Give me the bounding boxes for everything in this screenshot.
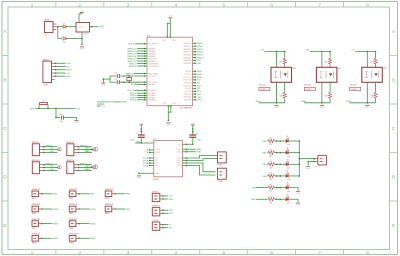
svg-text:1-2EN: 1-2EN <box>155 150 161 152</box>
svg-text:MT1B: MT1B <box>143 160 149 162</box>
svg-text:1: 1 <box>31 250 34 256</box>
svg-text:RB6/KBI2: RB6/KBI2 <box>184 60 192 62</box>
svg-text:SERVO-3: SERVO-3 <box>127 53 137 55</box>
wire <box>329 65 331 68</box>
wire to bus <box>289 152 299 154</box>
svg-text:PIC18F8722: PIC18F8722 <box>180 108 193 110</box>
resistor R5 <box>268 174 276 177</box>
svg-text:CON2: CON2 <box>305 89 310 91</box>
svg-text:SDO: SDO <box>197 85 202 87</box>
resistor R12 <box>329 58 332 65</box>
svg-text:OSC2/CLK: OSC2/CLK <box>148 82 157 84</box>
IC5 right pins with net labels <box>193 43 196 100</box>
svg-text:C: C <box>392 126 396 132</box>
junction <box>57 26 59 28</box>
svg-text:4: 4 <box>174 250 177 256</box>
wire <box>284 99 286 103</box>
svg-text:B: B <box>3 77 6 83</box>
ground GND2 <box>166 123 171 127</box>
wire to +5V label <box>56 107 76 109</box>
svg-text:SERVO2: SERVO2 <box>80 145 87 147</box>
wire <box>275 152 286 154</box>
svg-text:IN1: IN1 <box>155 158 158 160</box>
ground under OK3 <box>365 105 370 109</box>
svg-text:PGD: PGD <box>197 63 202 65</box>
connector SERVO3 <box>32 162 39 174</box>
svg-text:MCLR: MCLR <box>128 44 134 46</box>
svg-text:D6: D6 <box>286 183 288 185</box>
svg-text:RC7/RX: RC7/RX <box>185 91 192 93</box>
svg-text:GND: GND <box>74 122 79 124</box>
svg-text:C4: C4 <box>196 133 198 135</box>
svg-text:220: 220 <box>269 156 272 158</box>
svg-text:LED3: LED3 <box>197 100 203 102</box>
svg-text:IN2: IN2 <box>155 160 158 162</box>
LED D6 <box>286 185 289 190</box>
svg-text:IN3: IN3 <box>155 163 158 165</box>
connector SERVO2 <box>67 144 74 156</box>
svg-text:SW7: SW7 <box>32 228 36 230</box>
svg-text:SNS1: SNS1 <box>196 149 201 151</box>
svg-text:3-4EN: 3-4EN <box>155 152 161 154</box>
wire IC4 to PTM1 <box>187 156 215 159</box>
ground GND1 <box>80 47 85 51</box>
svg-text:IC1: IC1 <box>85 34 88 36</box>
svg-text:RB4/KBI0: RB4/KBI0 <box>184 54 192 56</box>
svg-text:220: 220 <box>269 167 272 169</box>
svg-text:SW10: SW10 <box>69 243 74 245</box>
LED D3 <box>286 150 289 155</box>
wire emitter down <box>276 82 278 103</box>
junction <box>123 75 125 77</box>
svg-text:SERVO2: SERVO2 <box>152 206 160 208</box>
svg-text:MSW-1: MSW-1 <box>197 43 205 45</box>
connector TX-RX <box>152 222 160 230</box>
svg-text:Q1: Q1 <box>126 75 128 77</box>
+5V supply P4 <box>191 123 195 125</box>
svg-text:7: 7 <box>318 250 321 256</box>
LED D7 <box>286 196 289 201</box>
svg-text:OSC1/CLK: OSC1/CLK <box>148 76 157 78</box>
svg-text:RC0/T1: RC0/T1 <box>185 71 191 73</box>
svg-text:RB1/INT1: RB1/INT1 <box>184 46 192 48</box>
svg-text:GND: GND <box>50 169 55 171</box>
svg-text:VUSB: VUSB <box>131 84 137 86</box>
svg-text:SR2: SR2 <box>169 213 173 215</box>
svg-text:SNS1: SNS1 <box>197 71 203 73</box>
svg-text:220: 220 <box>269 191 272 193</box>
svg-text:220: 220 <box>269 144 272 146</box>
optocoupler OK2 <box>316 67 337 82</box>
svg-text:D: D <box>3 174 7 180</box>
svg-text:TX-RX: TX-RX <box>152 220 158 222</box>
svg-text:SERVO-6: SERVO-6 <box>127 61 137 63</box>
wire IC1 gnd pin down <box>81 32 83 45</box>
wire to OK input <box>366 52 368 68</box>
wire <box>266 175 269 177</box>
wire output rail <box>259 102 285 104</box>
diode D2 <box>63 37 66 40</box>
svg-text:6: 6 <box>270 250 273 256</box>
svg-text:GND: GND <box>66 76 71 78</box>
svg-text:SW4: SW4 <box>32 213 36 215</box>
capacitor C4 <box>189 135 196 137</box>
svg-text:GND: GND <box>274 107 279 109</box>
svg-text:GND: GND <box>296 193 301 195</box>
svg-text:SERVO-4: SERVO-4 <box>127 56 137 58</box>
svg-text:OUT2: OUT2 <box>177 160 182 162</box>
wire emitter down <box>366 82 368 103</box>
wire <box>266 163 269 165</box>
svg-text:MSW-5: MSW-5 <box>197 55 205 57</box>
wire C11 to ground <box>64 118 77 120</box>
svg-text:SEN4: SEN4 <box>53 238 59 240</box>
svg-text:SCK: SCK <box>197 80 202 82</box>
svg-text:SERVO-2: SERVO-2 <box>127 51 137 53</box>
wire bus to speaker <box>299 158 315 160</box>
wire D2 to gnd rail <box>66 38 82 40</box>
svg-text:CON3: CON3 <box>351 89 356 91</box>
label COM1 <box>259 87 270 90</box>
connector SERVO1 <box>32 144 39 156</box>
svg-text:LED1: LED1 <box>197 94 203 96</box>
svg-text:SEN3: SEN3 <box>53 223 59 225</box>
svg-text:GND: GND <box>365 107 370 109</box>
svg-text:3: 3 <box>126 2 129 8</box>
capacitor C11 <box>62 116 64 120</box>
wire +5V rail <box>264 51 284 53</box>
svg-text:C1: C1 <box>136 133 138 135</box>
svg-text:2: 2 <box>79 250 82 256</box>
wire <box>284 65 286 68</box>
svg-text:MSW-6: MSW-6 <box>197 57 205 59</box>
svg-text:PGD: PGD <box>66 63 71 65</box>
ground under OK2 <box>320 105 325 109</box>
svg-text:R5: R5 <box>270 173 272 175</box>
voltage regulator IC1 7805 <box>76 23 90 33</box>
svg-text:SENS-1: SENS-1 <box>129 63 137 65</box>
svg-text:SEN5: SEN5 <box>90 223 96 225</box>
svg-text:RX-TX: RX-TX <box>128 90 135 92</box>
wire <box>266 140 269 142</box>
svg-text:D2: D2 <box>286 136 288 138</box>
svg-text:SERVO-1: SERVO-1 <box>127 48 137 50</box>
svg-text:SERVO3: SERVO3 <box>46 163 53 165</box>
svg-text:JP5V3: JP5V3 <box>152 191 158 193</box>
svg-text:MT2B: MT2B <box>143 165 149 167</box>
wire to bus <box>289 163 299 165</box>
wire IC4 to PTM2 <box>187 163 215 172</box>
speaker LS1 <box>318 155 327 165</box>
ground GND6 <box>306 166 311 170</box>
svg-text:100n: 100n <box>130 140 134 142</box>
svg-text:OK2: OK2 <box>338 68 342 70</box>
resistor R2 <box>268 139 276 142</box>
svg-text:GND: GND <box>50 151 55 153</box>
motor driver IC4 L293D <box>154 141 183 177</box>
wire <box>275 175 286 177</box>
svg-text:OUT4: OUT4 <box>177 165 182 167</box>
wire output rail <box>350 102 376 104</box>
ground GND3 <box>101 83 106 87</box>
wire <box>275 187 286 189</box>
svg-text:RB2/INT2: RB2/INT2 <box>184 49 192 51</box>
svg-text:C3: C3 <box>115 79 117 81</box>
svg-text:GND: GND <box>80 49 85 51</box>
wire OSC2 <box>119 81 146 83</box>
svg-text:100n: 100n <box>197 140 201 142</box>
svg-text:D3: D3 <box>286 148 288 150</box>
wire down to C11 <box>55 108 57 117</box>
svg-text:OUT2: OUT2 <box>177 151 182 153</box>
wire gnd to caps <box>102 79 104 83</box>
svg-text:D2: D2 <box>63 42 65 44</box>
svg-text:X1: X1 <box>45 34 47 36</box>
svg-text:GND: GND <box>101 85 106 87</box>
wire to ground <box>289 199 298 202</box>
wire jack to D1 <box>56 26 63 28</box>
svg-text:SERVO1: SERVO1 <box>46 145 53 147</box>
svg-text:R4: R4 <box>270 161 272 163</box>
svg-text:RB3/INT3: RB3/INT3 <box>184 52 192 54</box>
LED D5 <box>286 173 289 178</box>
svg-text:GND: GND <box>84 169 89 171</box>
svg-text:SNS1: SNS1 <box>256 101 261 103</box>
svg-text:OUT1: OUT1 <box>177 158 182 160</box>
svg-text:SR1: SR1 <box>169 210 173 212</box>
svg-text:SDI: SDI <box>197 83 201 85</box>
svg-text:IN4: IN4 <box>155 165 158 167</box>
LED D2 <box>286 138 289 143</box>
wire +5V rail <box>355 51 375 53</box>
svg-text:MTR-1: MTR-1 <box>130 93 137 95</box>
svg-text:RC2/CCP: RC2/CCP <box>184 77 193 79</box>
svg-text:SW3: SW3 <box>105 198 109 200</box>
connector X1 DC jack <box>45 22 54 33</box>
wire OSC1 <box>119 75 146 77</box>
capacitor C2 <box>117 74 119 78</box>
connector PTM2 motor <box>218 168 227 179</box>
svg-text:GND: GND <box>84 151 89 153</box>
svg-text:RB0/INT0: RB0/INT0 <box>184 43 192 45</box>
svg-text:MCLR: MCLR <box>66 70 72 72</box>
svg-text:KMK: KMK <box>251 199 256 201</box>
wire to OK input <box>321 52 323 68</box>
svg-text:4: 4 <box>174 2 177 8</box>
wire to R <box>284 52 286 58</box>
resistor R11 <box>283 58 286 65</box>
resistor R3 <box>268 151 276 154</box>
svg-text:D5: D5 <box>286 171 288 173</box>
svg-text:LED2: LED2 <box>197 97 203 99</box>
svg-text:V+: V+ <box>155 143 157 145</box>
svg-text:D1: D1 <box>63 23 65 25</box>
ground under OK1 <box>274 105 279 109</box>
wire +5V to C4 <box>192 125 194 135</box>
wire IC1 output <box>90 26 99 28</box>
svg-text:SEN2: SEN2 <box>90 209 96 211</box>
svg-text:3: 3 <box>126 250 129 256</box>
svg-text:RC6/TX: RC6/TX <box>185 88 192 90</box>
svg-text:PGC: PGC <box>197 60 202 62</box>
svg-text:LS1 8R: LS1 8R <box>314 166 321 168</box>
IC5 left pins with net labels <box>134 44 147 100</box>
svg-text:RC5/SDO: RC5/SDO <box>183 85 191 87</box>
svg-text:L293D: L293D <box>153 179 159 181</box>
wire <box>256 187 268 189</box>
svg-text:+VMOT: +VMOT <box>135 141 143 143</box>
wire IC1 input +V up <box>79 13 82 23</box>
svg-text:MCLR/VPP: MCLR/VPP <box>148 44 158 46</box>
wire <box>275 140 286 142</box>
+5V supply P1 <box>80 10 84 12</box>
svg-text:220: 220 <box>269 202 272 204</box>
wire <box>375 99 377 103</box>
svg-text:7: 7 <box>318 2 321 8</box>
frame column ticks and numbers <box>56 2 344 255</box>
wire to bus <box>289 140 299 142</box>
wire to R <box>375 52 377 58</box>
wire jack branch down <box>58 27 62 39</box>
svg-text:RC4/SDI: RC4/SDI <box>184 82 191 84</box>
junction <box>123 81 125 83</box>
svg-text:8: 8 <box>366 250 369 256</box>
svg-text:SW1: SW1 <box>32 198 36 200</box>
wire collector down <box>329 82 331 92</box>
svg-text:SERVO3: SERVO3 <box>32 160 40 162</box>
wire collector down <box>375 82 377 92</box>
svg-text:OK3: OK3 <box>383 68 387 70</box>
svg-text:L1: L1 <box>42 100 44 102</box>
svg-text:SEN1: SEN1 <box>53 209 59 211</box>
svg-text:MTR-4: MTR-4 <box>130 100 137 102</box>
svg-text:D7: D7 <box>286 194 288 196</box>
junction <box>81 43 83 45</box>
svg-text:5: 5 <box>222 250 225 256</box>
svg-text:RD2/PSP: RD2/PSP <box>184 100 192 102</box>
svg-text:DPC114: DPC114 <box>304 85 311 87</box>
svg-text:MTR-3: MTR-3 <box>130 97 137 99</box>
capacitor C3 <box>117 80 119 84</box>
wire V+ rail into IC4 <box>135 142 154 144</box>
svg-text:+5V: +5V <box>99 26 104 29</box>
svg-text:SW2: SW2 <box>69 198 73 200</box>
svg-text:D4: D4 <box>286 159 288 161</box>
svg-text:R6: R6 <box>270 184 272 186</box>
svg-text:7805: 7805 <box>78 27 82 29</box>
junction <box>81 38 83 40</box>
svg-text:RD0/PSP: RD0/PSP <box>184 94 192 96</box>
svg-text:MSW-3: MSW-3 <box>197 49 205 51</box>
svg-text:C: C <box>3 126 7 132</box>
inductor L1 <box>38 105 40 109</box>
svg-text:RB7/KBI3: RB7/KBI3 <box>184 63 192 65</box>
svg-text:GND: GND <box>296 205 301 207</box>
svg-text:robotiksistem.blogspot.com: robotiksistem.blogspot.com <box>97 100 127 103</box>
ground <box>296 191 301 195</box>
svg-text:R7: R7 <box>270 196 272 198</box>
svg-text:GND: GND <box>169 199 174 201</box>
svg-text:SNS3: SNS3 <box>197 77 203 79</box>
wire D1 to IC1 <box>66 26 76 28</box>
svg-text:B: B <box>392 77 395 83</box>
svg-text:6: 6 <box>270 2 273 8</box>
frame row ticks and letters <box>2 56 398 202</box>
svg-text:SW5: SW5 <box>69 213 73 215</box>
connector SERVO2 <box>152 208 160 216</box>
resistor R22 <box>329 92 332 99</box>
wire speaker pin2 to ground <box>308 161 315 163</box>
main MCU IC5 PIC18F8722 <box>147 37 193 106</box>
label COM3 <box>350 87 361 90</box>
junction <box>128 81 130 83</box>
ground GND4 <box>74 121 79 125</box>
wire to ground <box>289 188 298 191</box>
LED common bus wire <box>298 141 300 176</box>
optocoupler OK1 <box>271 67 292 82</box>
svg-text:SW8: SW8 <box>69 228 73 230</box>
svg-text:220: 220 <box>269 179 272 181</box>
svg-text:+5V: +5V <box>76 108 80 110</box>
svg-text:OUT1: OUT1 <box>177 149 182 151</box>
svg-text:ICSP: ICSP <box>44 85 49 87</box>
wire <box>275 163 286 165</box>
svg-text:SEN6: SEN6 <box>90 238 96 240</box>
svg-text:REV : 1: REV : 1 <box>97 106 106 108</box>
wire C4 down to IC4 VCC <box>192 137 194 144</box>
svg-text:1: 1 <box>31 2 34 8</box>
wire collector down <box>284 82 286 92</box>
wire +5V to C1 <box>140 125 142 135</box>
svg-text:RC3/SCK: RC3/SCK <box>184 80 192 82</box>
wire IC5 VSS to ground <box>168 106 171 113</box>
wire C1 down to IC4 V+ <box>140 137 142 143</box>
label COM2 <box>304 87 315 90</box>
capacitor C1 <box>138 135 145 137</box>
svg-text:GND: GND <box>320 107 325 109</box>
resistor R4 <box>268 163 276 166</box>
svg-text:SENS-2: SENS-2 <box>129 66 137 68</box>
svg-text:GND: GND <box>166 125 171 127</box>
+5V supply P3 <box>139 123 143 125</box>
svg-text:SW6: SW6 <box>105 213 109 215</box>
svg-text:C2: C2 <box>115 73 117 75</box>
svg-text:SNS2: SNS2 <box>196 152 201 154</box>
svg-text:OUT3: OUT3 <box>177 163 182 165</box>
svg-text:SERVO4: SERVO4 <box>80 163 87 165</box>
wire <box>266 152 269 154</box>
wire <box>329 99 331 103</box>
svg-text:OK1: OK1 <box>292 68 296 70</box>
svg-text:DPC114: DPC114 <box>350 85 357 87</box>
crystal Q1 <box>128 76 130 78</box>
wire +5V rail <box>310 51 330 53</box>
svg-text:8: 8 <box>366 2 369 8</box>
svg-text:MSW-4: MSW-4 <box>197 52 205 54</box>
+5V supply P2 <box>168 16 172 18</box>
svg-text:SERVO4: SERVO4 <box>66 160 74 162</box>
svg-text:SERVO2: SERVO2 <box>66 142 74 144</box>
LED D4 <box>286 161 289 166</box>
svg-text:VDD: VDD <box>30 108 35 110</box>
svg-text:D: D <box>392 174 396 180</box>
wire to R <box>329 52 331 58</box>
svg-text:CON1: CON1 <box>260 89 265 91</box>
wire <box>256 198 268 200</box>
svg-text:PTM2: PTM2 <box>218 181 223 183</box>
svg-text:RC1/T2: RC1/T2 <box>185 74 191 76</box>
resistor R13 <box>374 58 377 65</box>
